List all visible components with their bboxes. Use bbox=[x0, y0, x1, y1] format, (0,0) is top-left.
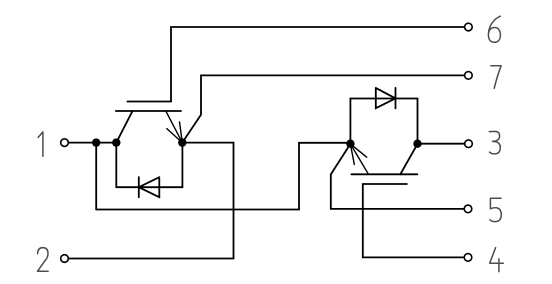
terminal pin 6 bbox=[465, 23, 473, 31]
pin label 5 bbox=[490, 198, 501, 221]
diode D2 loop wires bbox=[350, 99, 417, 144]
wire T2 node to pin 5 bbox=[331, 144, 465, 209]
wire pin1 bus bbox=[68, 142, 116, 144]
IGBT T2 emitter leg with arrow bbox=[350, 144, 368, 174]
wire junction A down bbox=[95, 143, 97, 210]
IGBT T2 gate plate bbox=[363, 183, 407, 185]
IGBT T1 collector leg bbox=[116, 111, 132, 143]
diode D1 anode wire bbox=[115, 143, 117, 188]
diode D1 symbol bbox=[139, 177, 160, 197]
IGBT T2 channel bar bbox=[351, 173, 417, 175]
diode D2 symbol bbox=[376, 88, 396, 109]
wire pin 3 bbox=[418, 143, 465, 145]
IGBT T1 emitter leg with arrow bbox=[166, 111, 183, 143]
wire T1 gate to pin 6 bbox=[171, 27, 465, 102]
diode D1 cathode riser bbox=[181, 143, 183, 188]
wire T2 gate to pin 4 bbox=[363, 184, 465, 257]
diode D1 bottom wire bbox=[116, 186, 182, 188]
IGBT T1 channel bar bbox=[116, 110, 181, 112]
pin label 2 bbox=[38, 248, 49, 272]
IGBT T2 collector leg bbox=[400, 144, 417, 174]
pin label 6 bbox=[488, 16, 500, 42]
junction dot E T2 right node bbox=[413, 140, 421, 148]
junction dot A bbox=[92, 138, 100, 146]
terminal pin 5 bbox=[464, 205, 472, 213]
terminal pin 3 bbox=[465, 140, 473, 148]
pin label 7 bbox=[491, 66, 501, 89]
wire pin 7 to T1 emitter node bbox=[182, 75, 464, 142]
wire output bus riser bbox=[298, 143, 300, 210]
junction dot C T1 emitter node bbox=[178, 138, 186, 146]
junction dot D T2 left node bbox=[346, 140, 354, 148]
pin label 3 bbox=[489, 131, 500, 154]
pin label 1 bbox=[38, 132, 43, 156]
wire T1 emitter node to pin 2 bbox=[68, 143, 233, 259]
junction dot B T1 collector bbox=[112, 138, 120, 146]
terminal pin 1 bbox=[61, 139, 69, 147]
wire output bus bottom bbox=[96, 209, 299, 211]
terminal pin 4 bbox=[464, 254, 472, 262]
terminal pin 2 bbox=[61, 255, 69, 263]
terminal pin 7 bbox=[465, 72, 473, 80]
wire output bus to T2 node bbox=[299, 142, 350, 144]
IGBT T1 gate plate bbox=[127, 101, 171, 103]
pin label 4 bbox=[490, 248, 504, 272]
